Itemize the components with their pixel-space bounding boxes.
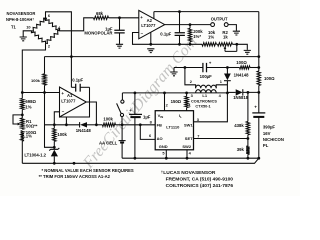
svg-text:NOVASENSOR: NOVASENSOR [7,11,36,16]
svg-text:7: 7 [197,134,199,139]
svg-text:LT1004-1.2: LT1004-1.2 [24,153,46,158]
diode 1N5818 [236,89,243,95]
junction AO tap on FB wire [139,123,142,126]
svg-text:68k: 68k [96,11,104,16]
wire right rail upper [258,12,260,71]
wire 0.1uF lower lead [179,35,181,44]
svg-text:10: 10 [26,24,30,29]
junction bridge drive rail [70,55,73,58]
junction bottom rail [73,162,76,165]
wire 100 ohm to +V node [258,86,260,113]
capacitor 1uF monopolar [114,30,124,33]
svg-text:** TRIM FOR 150mV ACROSS A1-A2: ** TRIM FOR 150mV ACROSS A1-A2 [39,174,111,179]
resistor 100 ohm 1% [21,131,24,141]
junction charge pump / right rail [257,66,260,69]
junction SET node [247,137,250,140]
ground charge pump [170,72,177,76]
svg-text:438k: 438k [234,123,244,128]
svg-text:COILTRONICS (407) 241-7876: COILTRONICS (407) 241-7876 [166,183,234,189]
switch S1 [121,100,124,103]
junction 200k top [189,23,192,26]
R2 wiper [225,48,237,52]
resistor 100k to LT1004 [53,128,56,141]
svg-text:100k: 100k [31,78,41,83]
transducer bridge T1 (NovaSensor NPH-8-100AH) arm top-left [32,18,46,31]
op-amp A1 LT1077 triangle [60,87,87,117]
svg-text:SET: SET [185,136,193,141]
wire 0.1uF left lead [71,86,75,88]
transducer bridge T1 arm top-right [45,19,59,31]
svg-text:39k: 39k [237,147,245,152]
transducer bridge T1 arm bottom-left [31,31,45,43]
svg-text:0.1µF: 0.1µF [160,32,171,37]
svg-text:SW1: SW1 [184,123,193,128]
junction 1uF bypass top [134,92,137,95]
wire A1 -input [54,112,59,125]
wire ground bus [122,157,259,159]
resistor 100k to FB [102,123,115,126]
A2 -input loop [133,33,151,45]
capacitor 0.1uF at A1 [76,84,81,92]
wire A1 +input [22,92,59,94]
wire 100k to FB pin [116,124,156,126]
resistor 698 ohm 1% [21,98,24,109]
terminal OUTPUT return [224,23,228,27]
wire SET [194,138,248,140]
svg-text:100µF: 100µF [200,74,213,79]
wire 1uF to ground [119,33,121,44]
wire 1uF bypass lower lead [134,118,136,159]
wire charge pump top [174,67,203,69]
ground below 1uF monopolar [116,44,123,48]
wire -input node to 100k [53,125,55,129]
svg-text:+: + [254,104,257,109]
wire SW node to 1N5818 [227,91,235,93]
resistor 100k bias upper [43,74,46,85]
reference LT1004-1.2 [49,148,59,151]
wire 10k to R2 [216,43,217,45]
capacitor 1uF bypass [129,113,142,115]
resistor 39k [246,146,249,154]
junction 698/R1 [21,114,24,117]
svg-text:100Ω: 100Ω [264,76,275,81]
junction A1 output / feedback [95,123,98,126]
svg-text:+: + [140,15,143,20]
A2 V+ stub [153,12,155,19]
junction 0.1uF bottom [178,43,181,46]
svg-text:150Ω: 150Ω [171,99,182,104]
wire to capacitor 1uF monopolar [119,18,121,30]
svg-text:1N4148: 1N4148 [76,128,92,133]
wire bridge top to vertical [46,12,72,88]
wire R2 to ground [232,44,247,50]
wire A1 feedback bus [45,124,80,126]
junction 0.1uF top [178,10,181,13]
svg-text:100k: 100k [57,132,67,137]
junction R2 right [235,43,238,46]
wire 0.1uF right lead [80,86,89,88]
junction LT1004 bottom rail [53,162,56,165]
junction right rail top [257,55,260,58]
IC U1 LT1110 box [155,111,193,150]
AO pin wire [140,125,155,140]
svg-text:COILTRONICS: COILTRONICS [191,99,217,103]
wire bridge right pin 4 to 68k [60,18,94,31]
svg-text:100k: 100k [103,117,113,122]
capacitor 390uF [252,112,265,114]
svg-text:1N4148: 1N4148 [234,73,250,78]
svg-text:LT1077: LT1077 [61,98,76,103]
wire 0.1uF upper lead [179,12,181,33]
junction GND pin [165,157,168,160]
svg-text:L1: L1 [202,93,207,98]
wire charge pump to 100 ohm [227,67,239,69]
potentiometer R2 1k [218,43,233,46]
wire diode to A1 output node [87,124,102,126]
wire 100k to LT1004 top [53,141,55,149]
wire charge pump right [207,67,228,69]
L1 upper winding left lead [185,68,196,89]
junction 200k bottom [189,43,192,46]
wire A1 bottom edge net [60,87,90,117]
wire 100 ohm to bottom rail [21,141,23,163]
resistor 200k [188,28,191,41]
inductor L1 lower winding [196,90,217,93]
R1 wiper [13,115,22,124]
svg-text:AA CELL: AA CELL [99,141,118,146]
A2 V- stub [150,32,152,44]
wire 68k to A2 +input [109,17,139,19]
svg-text:MONOPOLAR: MONOPOLAR [84,30,112,35]
wire 150 ohm top lead [186,93,188,96]
svg-text:1N5818: 1N5818 [233,95,249,100]
svg-text:+: + [129,108,132,113]
svg-text:1k: 1k [223,34,228,39]
wire 100 ohm to right rail [250,67,259,69]
svg-text:* NOMINAL VALUE EACH SENSOR RE: * NOMINAL VALUE EACH SENSOR REQUIRES [42,168,134,173]
junction +V node [257,91,260,94]
wire VIN stub [164,93,166,111]
svg-text:FREMONT, CA (510) 490-9100: FREMONT, CA (510) 490-9100 [166,177,234,183]
junction 150 ohm top [185,92,188,95]
svg-text:0.1µF: 0.1µF [72,78,83,83]
svg-text:VIN: VIN [158,113,164,119]
terminal OUTPUT signal [211,23,215,27]
battery AA cell [119,140,126,142]
wire 200k top lead [189,25,191,29]
svg-text:1%: 1% [25,105,31,110]
op-amp A2 LT1077 triangle [139,10,165,38]
svg-text:AO: AO [157,136,163,141]
svg-text:NICHICON: NICHICON [263,137,284,142]
svg-text:OUTPUT: OUTPUT [211,16,228,21]
svg-text:1%: 1% [208,34,214,39]
svg-text:16V: 16V [263,131,271,136]
watermark [79,34,200,173]
svg-text:1%*: 1%* [193,34,201,39]
A1 V- stub to -input net [65,117,67,125]
wire bridge left pin 10 [23,31,31,37]
junction -input/100k node [53,123,56,126]
resistor 438k [246,121,249,134]
wire bridge bottom to left chain [22,43,45,98]
svg-text:1%: 1% [26,134,32,139]
wire A2 output [165,24,211,26]
resistor 68k [94,16,109,19]
junction 1uF bypass bottom [134,157,137,160]
junction SW node [226,92,229,95]
resistor 150 ohm [185,96,188,107]
junction charge pump right [226,66,229,69]
wire output return to ground [228,25,237,31]
svg-text:390µF: 390µF [263,125,276,130]
junction divider top [247,91,250,94]
wire bridge drive rail [45,56,259,58]
svg-text:698Ω: 698Ω [25,99,36,104]
svg-text:FB: FB [157,123,162,128]
diode 1N4148 vertical [226,68,228,74]
svg-text:1µF: 1µF [143,114,151,119]
junction SW2 pin [186,157,189,160]
ground at bridge pin 10 [20,37,27,41]
diode 1N4148 at A1 [79,122,81,127]
wire 390uF to bottom [258,118,260,159]
wire divider upper [247,92,249,121]
ground A2 V- [147,49,154,53]
svg-text:T1: T1 [11,25,17,30]
wire VIN rail through L1 [196,92,228,94]
SW2 pin stub [186,150,188,158]
ground output return [233,31,240,35]
junction 39k bottom [247,157,250,160]
node at bridge top (pin 6) [44,17,47,20]
wire 438k to SET node [247,135,249,146]
svg-text:IL: IL [179,113,182,119]
svg-text:GND: GND [159,144,168,149]
svg-text:NPH-8-100AH†: NPH-8-100AH† [6,17,34,22]
ground R2 chain [244,50,251,54]
wire 698 to R1 [21,110,23,118]
wire V+ rail top [154,11,259,13]
wire 200k bottom lead [189,42,191,45]
wire 1uF bypass upper lead [134,93,136,114]
svg-text:50Ω**: 50Ω** [26,123,38,128]
wire feedback node [151,43,202,45]
wire A1 output [86,102,96,125]
wire 100k down through +input node [45,85,55,147]
resistor 10k 1% [202,43,216,46]
svg-text:+: + [61,91,64,96]
svg-text:−: − [62,109,65,114]
resistor 100 ohm charge pump [240,66,251,69]
svg-text:CTX50-1: CTX50-1 [195,104,210,108]
resistor 100 ohm vertical [257,71,260,86]
junction charge pump left [184,66,187,69]
junction A1 V- stub [65,123,68,126]
GND pin stub [165,150,167,158]
svg-text:SW2: SW2 [182,144,191,149]
junction bus right end [257,157,260,160]
junction VIN stub [163,92,166,95]
svg-text:−: − [141,31,144,36]
wire SW node to SW1 pin [194,93,228,122]
junction battery/switch node [121,123,124,126]
inductor L1 upper winding [196,85,217,88]
L1 upper winding right lead [216,85,227,88]
svg-text:LT1077: LT1077 [141,23,156,28]
capacitor 0.1uF at A2 [175,33,185,36]
svg-text:LT1110: LT1110 [166,125,180,130]
junction A1 +input [21,91,24,94]
junction 100k / A1 +input [43,91,46,94]
junction 68k / 1uF [118,16,121,19]
potentiometer R1 50 ohm [21,118,24,129]
svg-text:PL: PL [263,143,269,148]
wire bottom rail [22,158,258,163]
wire rail to 100k [44,57,46,74]
junction LT1004 top [53,146,56,149]
wire 39k to bus [247,154,249,158]
wire 150 ohm to IL pin [186,108,188,111]
junction A2 V- [149,43,152,46]
transducer bridge T1 arm bottom-right [46,30,60,43]
capacitor 100uF [203,63,207,72]
wire VIN rail [122,92,195,94]
svg-text:†LUCAS NOVASENSOR: †LUCAS NOVASENSOR [161,170,216,176]
svg-text:100Ω: 100Ω [236,60,247,65]
